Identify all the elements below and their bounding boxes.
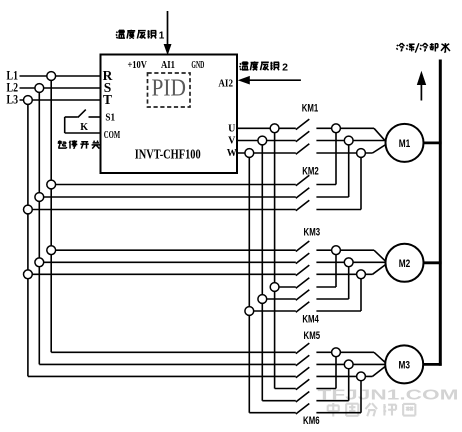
motor M1 pipe coupling xyxy=(423,141,441,144)
label start-stop switch (Chinese) xyxy=(58,140,67,148)
node L2-KM2 junction xyxy=(35,193,44,202)
svg-text:U: U xyxy=(228,123,235,134)
wire L2 input to terminal S xyxy=(20,87,101,89)
wire KM6 phase2 left feed from V corner xyxy=(262,400,296,402)
motor M2 pipe coupling xyxy=(423,261,441,264)
wire W vertical bus drop xyxy=(248,153,250,413)
wire KM6 phase3 left feed from W corner xyxy=(249,412,295,414)
contactor KM2 phase3 blade xyxy=(296,200,310,211)
wire KM4 phase1 right turn-up xyxy=(316,286,336,288)
wire KM5 phase2 to motor xyxy=(316,363,385,365)
wire L1 corner feed to KM5 phase1 xyxy=(51,351,296,353)
wire KM3 phase2 to motor xyxy=(316,261,385,263)
contactor KM3 phase2 blade xyxy=(296,253,310,264)
contactor KM2 phase1 blade xyxy=(296,175,310,186)
svg-text:KM2: KM2 xyxy=(302,166,319,178)
svg-text:COM: COM xyxy=(104,130,121,141)
wire KM1 phase2 to motor xyxy=(316,140,385,142)
node L1-KM3 junction xyxy=(47,246,56,255)
wire KM6 phase3 right turn-up xyxy=(316,412,361,414)
switch K start-stop wiring loop xyxy=(89,116,101,118)
wire KM4 phase3 right turn-up xyxy=(316,310,361,312)
wire L3 corner feed to KM5 phase3 xyxy=(28,375,296,377)
contactor KM3 phase3 blade xyxy=(296,265,310,276)
switch K blade xyxy=(78,110,86,118)
contactor KM5 phase3 blade xyxy=(296,367,310,378)
node M3 phase1 junction xyxy=(332,348,341,357)
wire KM2 phase1 right turn-up xyxy=(316,184,336,186)
label temperature feedback 1 (Chinese) xyxy=(116,30,125,38)
svg-text:+10V: +10V xyxy=(127,59,147,71)
temperature feedback 2 arrow into AI2 xyxy=(249,79,301,81)
node M1 phase3 junction xyxy=(357,149,366,158)
wire KM5 phase3 to motor xyxy=(316,375,372,377)
wire KM2 phase1 left feed from L1 xyxy=(51,184,296,186)
svg-text:KM1: KM1 xyxy=(302,102,319,114)
inverter U1 INVT-CHF100 box xyxy=(101,55,238,174)
svg-text:1: 1 xyxy=(159,31,165,42)
wire KM4 phase1 left feed from U xyxy=(275,286,296,288)
node L2-KM3 junction xyxy=(35,258,44,267)
water flow arrow up xyxy=(420,83,422,101)
svg-text:V: V xyxy=(228,135,236,146)
PID function block dashed box xyxy=(148,73,191,107)
node W-KM1 junction xyxy=(245,149,254,158)
wire KM1 phase1 to motor xyxy=(316,127,374,129)
wire L2 vertical bus drop xyxy=(38,88,40,364)
node M3 phase2 junction xyxy=(344,360,353,369)
wire KM3 phase1 to motor xyxy=(316,249,374,251)
wire KM6 phase1 right turn-up xyxy=(316,388,336,390)
wire KM2 phase3 right turn-up xyxy=(316,209,361,211)
wire KM4 phase2 right turn-up xyxy=(316,298,348,300)
node L3-KM3 junction xyxy=(24,270,33,279)
wire L1 vertical bus drop xyxy=(50,76,52,352)
contactor KM1 phase1 blade xyxy=(296,119,310,130)
wire V output to KM1 phase2 xyxy=(237,140,296,142)
wire KM1 phase3 to motor xyxy=(316,152,372,154)
svg-text:KM6: KM6 xyxy=(303,415,320,427)
contactor KM2 phase2 blade xyxy=(296,188,310,199)
wire KM6 phase2 right turn-up xyxy=(316,400,348,402)
svg-text:KM4: KM4 xyxy=(302,313,319,325)
wire U output to KM1 phase1 xyxy=(237,127,296,129)
wire V vertical bus drop xyxy=(261,141,263,401)
node L3-KM2 junction xyxy=(24,205,33,214)
wire KM4 phase2 left feed from V xyxy=(262,298,296,300)
node M2 phase3 junction xyxy=(357,270,366,279)
wire KM3 phase2 left feed from L2 xyxy=(39,261,296,263)
svg-text:M3: M3 xyxy=(398,359,410,371)
node M2 phase1 junction xyxy=(332,246,341,255)
contactor KM6 phase2 blade xyxy=(296,392,310,403)
wire KM2 phase3 left feed from L3 xyxy=(28,209,296,211)
temperature feedback 1 arrow into AI1 xyxy=(167,11,169,46)
node U-KM1 junction xyxy=(270,124,279,133)
svg-text:2: 2 xyxy=(282,61,288,73)
svg-text:KM3: KM3 xyxy=(304,226,321,238)
contactor KM5 phase2 blade xyxy=(296,355,310,366)
contactor KM6 phase3 blade xyxy=(296,404,310,415)
label temperature feedback 2 (Chinese) xyxy=(240,62,249,70)
contactor KM4 phase1 blade xyxy=(296,278,310,289)
svg-text:S1: S1 xyxy=(105,112,115,123)
wire KM5 phase1 to motor xyxy=(316,351,374,353)
wire L1 input to terminal R xyxy=(20,75,101,77)
contactor KM1 phase3 blade xyxy=(296,144,310,155)
node M2 phase2 junction xyxy=(344,258,353,267)
wire L3 vertical bus drop xyxy=(27,100,29,376)
svg-text:PID: PID xyxy=(151,75,186,101)
wire KM3 phase3 to motor xyxy=(316,273,372,275)
svg-text:M2: M2 xyxy=(399,258,411,270)
contactor KM4 phase2 blade xyxy=(296,290,310,301)
svg-text:T: T xyxy=(103,92,112,107)
svg-text:INVT-CHF100: INVT-CHF100 xyxy=(135,148,201,163)
motor M3 xyxy=(385,345,423,383)
wire KM2 phase2 left feed from L2 xyxy=(39,196,296,198)
svg-text:L3: L3 xyxy=(7,92,19,106)
wire L3 input to terminal T xyxy=(20,99,101,101)
wire KM6 phase1 left feed from U corner xyxy=(275,388,296,390)
svg-text:AI1: AI1 xyxy=(161,59,175,71)
wire KM2 phase2 right turn-up xyxy=(316,196,348,198)
node L2-S junction xyxy=(35,84,44,93)
wire KM3 phase1 left feed from L1 xyxy=(51,249,296,251)
motor M2 xyxy=(386,244,424,282)
node V-KM1 junction xyxy=(258,136,267,145)
watermark text line2 xyxy=(328,403,339,417)
wire U vertical bus drop xyxy=(274,128,276,388)
motor M3 pipe coupling xyxy=(423,363,442,366)
node V-KM4 junction xyxy=(258,295,267,304)
wire KM3 phase3 left feed from L3 xyxy=(28,273,296,275)
node M1 phase1 junction xyxy=(332,124,341,133)
node L3-T junction xyxy=(24,96,33,105)
svg-text:TFJJN1.COM: TFJJN1.COM xyxy=(318,388,459,404)
wire W output to KM1 phase3 xyxy=(237,152,296,154)
node L1-KM2 junction xyxy=(47,180,56,189)
contactor KM3 phase1 blade xyxy=(296,241,310,252)
svg-text:W: W xyxy=(227,148,237,159)
motor M1 xyxy=(386,124,424,162)
node U-KM4 junction xyxy=(270,283,279,292)
wire KM4 phase3 left feed from W xyxy=(249,310,295,312)
svg-text:GND: GND xyxy=(191,59,204,71)
node L1-R junction xyxy=(47,72,56,81)
wire L2 corner feed to KM5 phase2 xyxy=(39,363,296,365)
node M3 phase3 junction xyxy=(357,372,366,381)
contactor KM6 phase1 blade xyxy=(296,379,310,390)
node W-KM4 junction xyxy=(245,307,254,316)
svg-text:K: K xyxy=(80,122,88,133)
svg-text:M1: M1 xyxy=(399,138,411,150)
water pipe bus (cooling water) xyxy=(439,60,442,366)
node M1 phase2 junction xyxy=(344,136,353,145)
label chilled/cooling water (Chinese) xyxy=(396,43,404,51)
contactor KM1 phase2 blade xyxy=(296,131,310,142)
contactor KM5 phase1 blade xyxy=(296,343,310,354)
contactor KM4 phase3 blade xyxy=(296,302,310,313)
svg-text:KM5: KM5 xyxy=(304,330,321,342)
svg-text:AI2: AI2 xyxy=(218,77,233,89)
